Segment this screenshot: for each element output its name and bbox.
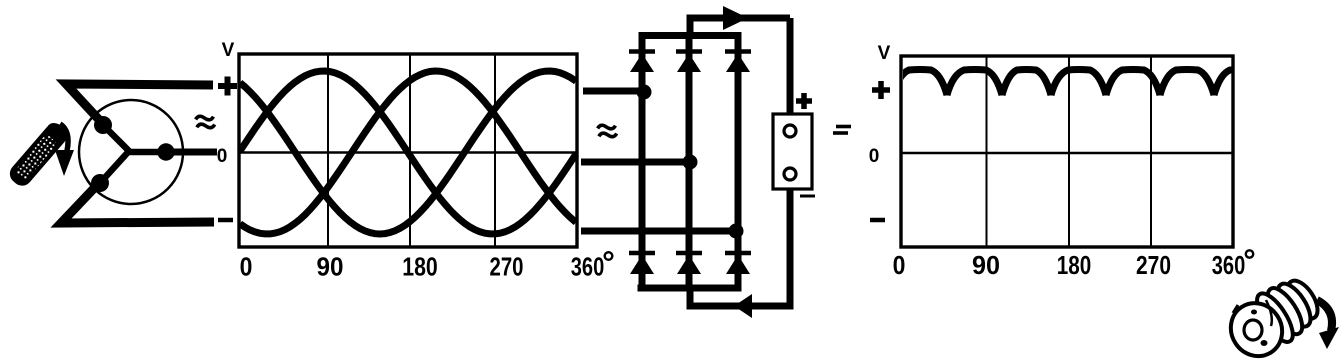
diode D1 (top) bbox=[629, 52, 655, 73]
wire: battery - drop bbox=[787, 174, 794, 310]
node: phase1 junction bbox=[637, 85, 652, 100]
wire: phase leg 2 bbox=[686, 36, 693, 289]
wire: phase lead to + rail bbox=[66, 84, 213, 124]
svg-text:90: 90 bbox=[972, 250, 1000, 280]
wire: top bus (+) bbox=[639, 32, 742, 39]
current arrow (+ line, pointing right) bbox=[723, 6, 748, 30]
winding terminal dot (top) bbox=[94, 116, 112, 134]
plot frame bbox=[239, 54, 577, 247]
generator stator circle G1 bbox=[79, 100, 183, 204]
gridline 180deg bbox=[409, 54, 411, 247]
phase W sine curve bbox=[240, 71, 576, 234]
y axis label + bbox=[218, 77, 237, 96]
svg-text:270: 270 bbox=[1136, 250, 1171, 280]
y axis label - bbox=[218, 218, 233, 223]
AC symbol near generator bbox=[195, 114, 215, 130]
wire: phase 1 to rectifier bbox=[583, 88, 644, 95]
wire: bottom bus (-) bbox=[638, 285, 742, 292]
winding terminal dot (right) bbox=[157, 143, 174, 160]
drive shaft (hatched cylinder) bbox=[6, 119, 71, 190]
pulley ridge 1 bbox=[1250, 288, 1299, 347]
svg-text:270: 270 bbox=[490, 252, 524, 282]
phase U sine curve bbox=[240, 71, 576, 234]
gridline 270deg bbox=[494, 54, 496, 247]
wire: phase leg 1 bbox=[639, 36, 646, 289]
battery terminal circle (top) bbox=[784, 125, 796, 137]
pulley ridge 4 bbox=[1282, 276, 1324, 324]
svg-text:V: V bbox=[222, 40, 235, 61]
node: phase3 junction bbox=[729, 224, 744, 239]
y axis label - bbox=[870, 218, 885, 223]
svg-text:360: 360 bbox=[1212, 250, 1246, 280]
diode D3 (top) bbox=[725, 52, 751, 73]
shaft hole bbox=[1244, 320, 1262, 340]
rectifier bridge bbox=[629, 6, 790, 318]
gridline 90deg bbox=[327, 54, 329, 247]
graph 1: three-phase voltage plot bbox=[217, 40, 613, 282]
pulley / rotor icon bbox=[1220, 270, 1339, 360]
label + at battery bbox=[796, 93, 812, 109]
DC symbol bbox=[833, 127, 851, 134]
phase V sine curve bbox=[240, 71, 576, 234]
svg-text:0: 0 bbox=[217, 146, 228, 167]
degree mark bbox=[605, 252, 613, 260]
gridline 180deg bbox=[1068, 56, 1070, 247]
wire: phase lead to 0 rail bbox=[168, 149, 217, 156]
pulley face bbox=[1221, 293, 1292, 360]
AC symbol near rectifier bbox=[597, 123, 617, 139]
svg-text:0: 0 bbox=[240, 252, 253, 282]
diode D5 (bottom) bbox=[676, 253, 702, 274]
degree mark bbox=[1246, 250, 1253, 257]
svg-text:180: 180 bbox=[402, 252, 438, 282]
pulley ridge 3 bbox=[1272, 279, 1317, 332]
gridline 270deg bbox=[1150, 56, 1152, 247]
wire: - return line bbox=[687, 303, 791, 310]
face detail marks bbox=[1266, 300, 1272, 326]
label - at battery bbox=[800, 195, 815, 198]
graph 2: rectified voltage plot bbox=[869, 43, 1266, 280]
zero axis line bbox=[901, 152, 1233, 155]
svg-text:90: 90 bbox=[317, 252, 344, 282]
wire: phase 2 to rectifier bbox=[581, 159, 690, 166]
wire: + output line bbox=[687, 15, 791, 22]
svg-text:V: V bbox=[878, 43, 891, 64]
rotation arrow bbox=[55, 124, 74, 176]
Y winding arms bbox=[100, 125, 166, 183]
svg-text:0: 0 bbox=[893, 250, 906, 280]
winding terminal dot (bottom) bbox=[91, 174, 109, 192]
plot frame bbox=[901, 56, 1233, 247]
svg-text:360: 360 bbox=[571, 252, 605, 282]
svg-text:180: 180 bbox=[1057, 250, 1092, 280]
pulley rotation arrow bbox=[1317, 300, 1332, 331]
node: phase2 junction bbox=[683, 155, 698, 170]
svg-text:0: 0 bbox=[869, 146, 880, 167]
diode D4 (bottom) bbox=[629, 253, 655, 274]
zero axis line bbox=[239, 151, 577, 154]
current arrow (- line, pointing left) bbox=[734, 294, 752, 318]
wire: phase 3 to rectifier bbox=[581, 228, 737, 235]
diode D2 (top) bbox=[676, 52, 702, 73]
gridline 90deg bbox=[986, 56, 988, 247]
wire: right drop to battery + bbox=[787, 18, 794, 131]
battery B1 bbox=[773, 93, 851, 196]
wire: phase lead to - rail bbox=[61, 182, 214, 223]
wire: phase leg 3 bbox=[735, 36, 742, 289]
battery terminal circle (bottom) bbox=[784, 168, 796, 180]
wire: - riser bbox=[687, 285, 694, 309]
pulley ridge 2 bbox=[1261, 283, 1308, 339]
y axis label + bbox=[872, 81, 890, 99]
diode D6 (bottom) bbox=[725, 253, 751, 274]
wire: + riser bbox=[687, 18, 694, 39]
